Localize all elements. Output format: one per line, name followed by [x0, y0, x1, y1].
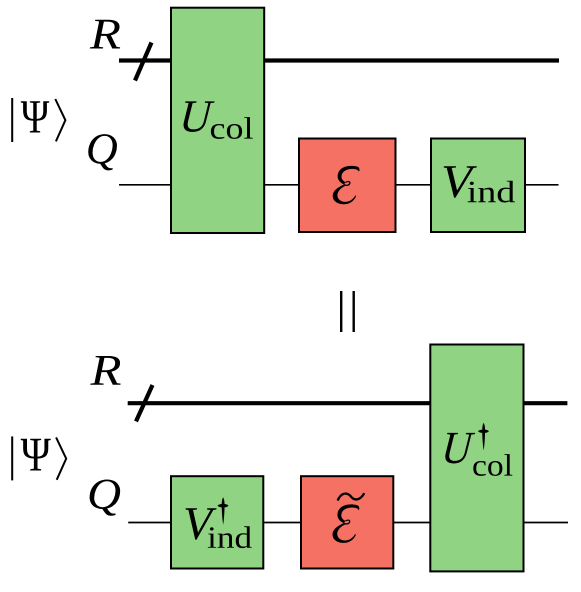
label Q (bottom register)	[90, 479, 121, 515]
wire Q (top, thin single-qubit line)	[119, 184, 559, 186]
gate E (red noise-channel box on Q wire, top circuit)	[299, 139, 396, 233]
slash (register size tick) on bottom R wire	[136, 385, 153, 421]
gate U_col^dagger (green box spanning both wires, bottom circuit)	[430, 345, 523, 572]
tilde accent over script E	[338, 493, 365, 500]
label R (top register)	[90, 20, 120, 49]
label R (bottom register)	[90, 356, 120, 385]
slash (register size tick) on top R wire	[135, 43, 152, 81]
gate E-tilde (red inverse-channel box on Q wire, bottom circuit)	[301, 476, 393, 568]
equality sign (rotated =) between circuits	[341, 291, 354, 332]
gate U_col (green box spanning both wires, top circuit)	[171, 8, 264, 233]
label |Psi> ket (bottom)	[12, 436, 66, 480]
script-E glyph (mathcal E, bottom)	[333, 504, 360, 542]
gate V_ind^dagger (green box on Q wire, bottom circuit)	[171, 476, 263, 568]
label Q (top register)	[88, 134, 117, 170]
wire Q (bottom, thin single-qubit line)	[128, 522, 568, 524]
gate V_ind (green box on Q wire, top circuit)	[431, 139, 525, 233]
wire R (bottom, thick multi-qubit register line)	[128, 401, 568, 405]
label |Psi> ket (top)	[12, 98, 65, 142]
wire R (top, thick multi-qubit register line)	[119, 58, 559, 62]
script-E glyph (mathcal E)	[333, 166, 360, 204]
